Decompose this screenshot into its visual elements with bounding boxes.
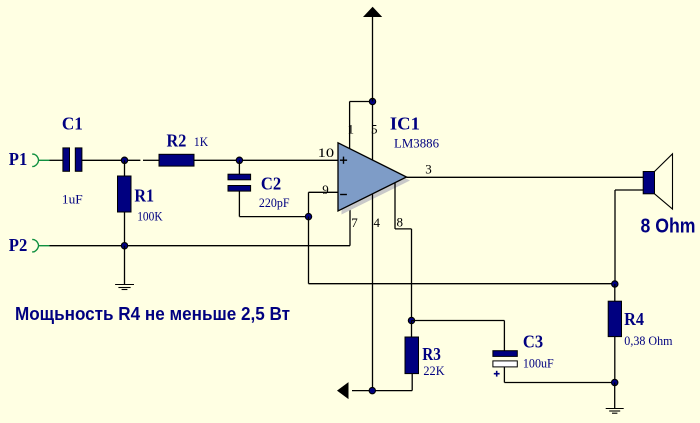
pin 4 wire [372,194,374,390]
svg-text:220pF: 220pF [259,195,290,210]
node power junction [369,98,375,104]
resistor R4 [608,284,672,383]
node input junction [121,157,127,163]
wire R3 bottom to arrow [352,390,412,392]
svg-text:10: 10 [318,145,335,160]
svg-text:22K: 22K [423,363,445,378]
wire P1 to C1 [50,159,64,161]
svg-text:0,38 Ohm: 0,38 Ohm [624,333,672,348]
node R2 output junction [236,157,242,163]
svg-text:5: 5 [371,121,378,136]
pin labels [318,121,432,230]
svg-text:C1: C1 [62,114,83,134]
wire R2 to op-amp pin 10 [194,159,338,161]
svg-text:R1: R1 [134,186,154,206]
node R3 top junction [408,317,414,323]
svg-text:R2: R2 [167,131,187,151]
svg-text:LM3886: LM3886 [394,136,439,151]
svg-text:9: 9 [322,182,329,197]
svg-text:3: 3 [425,161,432,176]
connector P1 [9,149,50,169]
op-amp U1 shadow [342,146,411,214]
svg-text:8: 8 [397,215,404,230]
speaker LS1 [641,154,696,238]
svg-text:7: 7 [351,215,358,230]
pin 5 wire [372,102,374,161]
svg-text:1: 1 [348,121,355,136]
svg-text:IC1: IC1 [390,113,420,133]
svg-text:C2: C2 [261,173,281,193]
wire to power arrow [372,17,374,102]
wire C3 bottom to R4 node [504,367,614,383]
wire R3 node to C3 [412,321,505,351]
capacitor C2 [228,160,290,216]
wire P2 to pin 7 [50,205,351,245]
wire C1 to R2 [82,159,159,161]
wire pin 9 [309,192,339,216]
wire op-amp output pin 3 [407,176,644,178]
resistor R3 [405,321,445,391]
svg-text:100K: 100K [137,208,163,223]
node R4 top junction [612,281,618,287]
wire speaker return [615,190,643,284]
svg-text:C3: C3 [523,331,543,351]
capacitor C1 [62,114,83,207]
op-amp IC1 [338,113,439,211]
svg-text:P2: P2 [9,235,28,255]
pin 1 wire [350,102,373,149]
ground G2 [606,383,624,414]
svg-text:1uF: 1uF [62,191,83,206]
wire feedback to output node [309,217,615,284]
svg-text:R4: R4 [624,309,644,329]
svg-text:Мощьность R4 не меньше 2,5 Вт: Мощьность R4 не меньше 2,5 Вт [15,304,290,324]
wire C2 bottom to feedback node [239,216,308,218]
svg-text:1K: 1K [194,134,209,149]
node P2 ground junction [121,243,127,249]
resistor R1 [118,160,164,245]
ground arrow [337,382,349,399]
resistor R2 [159,131,209,167]
svg-text:8 Ohm: 8 Ohm [641,215,696,237]
svg-text:100uF: 100uF [523,355,554,370]
ground G1 [115,246,134,290]
node R4 bottom junction [612,379,618,385]
power arrow [363,7,382,17]
svg-text:P1: P1 [9,149,28,169]
node feedback junction [305,213,311,219]
svg-text:4: 4 [374,215,381,230]
connector P2 [9,235,50,255]
svg-text:R3: R3 [422,344,441,364]
pin 8 wire [395,183,412,321]
capacitor C3 [493,331,554,376]
node pin4 ground junction [369,387,375,393]
